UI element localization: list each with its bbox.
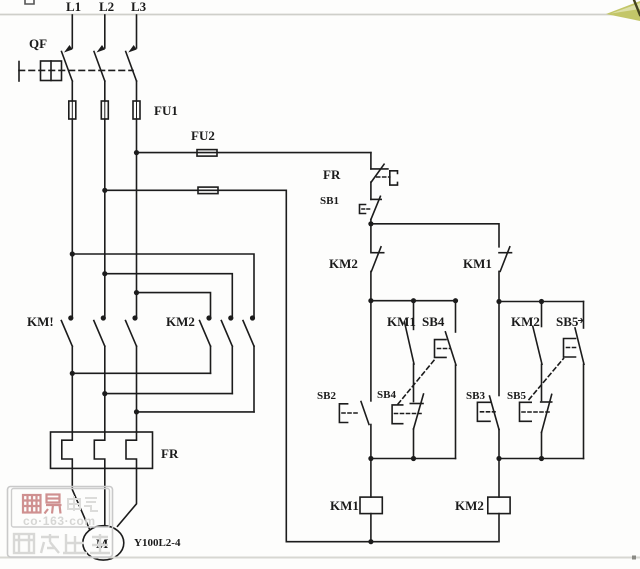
wire branch3 L3 to KM2 left (137, 293, 211, 318)
node junction group2 bottom left (496, 456, 501, 461)
node junction L2 control tap (102, 188, 107, 193)
svg-text:SB4: SB4 (377, 389, 396, 401)
page corner green wedge (606, 1, 640, 21)
svg-text:L3: L3 (131, 0, 147, 14)
relay FR trip element (377, 171, 398, 185)
breaker QF pole 3 (126, 45, 137, 81)
link SB5 dashed (529, 359, 564, 400)
svg-text:SB4: SB4 (422, 314, 445, 329)
thermal relay FR heater 3 (126, 432, 137, 468)
wire control feed upper (137, 152, 371, 154)
motor M letter (96, 536, 108, 551)
node junction branch2 L2 (102, 271, 107, 276)
wire control feed corner down (370, 153, 372, 169)
wire group2 top bar (499, 301, 584, 303)
contactor KM2 main pole 3 (243, 315, 255, 346)
svg-text:co·163·com: co·163·com (23, 514, 96, 528)
wire KM2 output right down (253, 346, 255, 412)
wire L2 fuse to KM1 contact (104, 119, 106, 318)
coil KM2 label (455, 498, 484, 513)
pushbutton SB3 NO contact (490, 302, 500, 459)
pushbutton SB2 label (317, 390, 336, 402)
wire crossover3 (137, 411, 255, 413)
contactor KM2 main label (166, 314, 195, 329)
svg-text:FR: FR (323, 167, 341, 182)
pushbutton SB5 NO operator (564, 339, 579, 358)
svg-text:KM!: KM! (27, 314, 54, 329)
fuse FU1 phase 1 (69, 101, 76, 119)
wire KM1 outputs down (72, 346, 136, 432)
wire FR to SB1 (370, 182, 372, 199)
top page border gray line (0, 14, 640, 16)
motor type label Y100L2-4 (134, 537, 181, 549)
svg-text:L2: L2 (99, 0, 114, 14)
node junction group1 top mid (411, 298, 416, 303)
node junction crossover2 (102, 391, 107, 396)
interlock KM1 NC contact (499, 247, 512, 302)
watermark outer box (8, 487, 113, 558)
wire group1 bottom bar (371, 458, 456, 460)
pushbutton SB4 NO label (422, 314, 445, 329)
fuse FU1 phase 2 (101, 101, 108, 119)
interlock KM2 NC label (329, 256, 358, 271)
contactor KM1 main pole 1 (61, 315, 73, 346)
interlock KM2 NC contact (371, 224, 384, 301)
breaker QF trip dashed line (19, 69, 133, 71)
pushbutton SB1 operator E (360, 205, 372, 214)
pushbutton SB4 NO contact (445, 301, 456, 459)
wire crossover1 (72, 372, 210, 374)
wire motor lead 1 (72, 468, 89, 529)
svg-text:SB5: SB5 (556, 314, 579, 329)
wire motor lead 3 (118, 468, 137, 526)
svg-text:L1: L1 (66, 0, 81, 14)
pushbutton SB1 label (320, 195, 339, 207)
wire L1 QF to fuse (71, 81, 73, 101)
pushbutton SB5 NC label (507, 390, 526, 402)
wire SB1 to right branch (371, 220, 499, 247)
contactor KM1 main pole 3 (126, 315, 138, 346)
watermark panel (8, 487, 113, 558)
fuse FU2 lower (198, 187, 218, 194)
svg-text:KM1: KM1 (330, 498, 359, 513)
wire control feed lower (105, 190, 498, 541)
node junction KM1 coil bottom (368, 539, 373, 544)
node junction SB1 out (368, 221, 373, 226)
wire L2 drop to QF (104, 15, 106, 48)
contact KM2 aux label (511, 314, 540, 329)
node junction group2 bottom mid (539, 456, 544, 461)
page corner wedge shading (611, 3, 640, 14)
pushbutton SB1 NC contact (371, 196, 381, 219)
wire L3 QF to fuse (136, 81, 138, 101)
breaker QF pole 1 (62, 45, 73, 81)
thermal relay FR heater 1 (62, 432, 73, 468)
svg-text:SB5: SB5 (507, 390, 526, 402)
pushbutton SB4 NC contact (410, 394, 423, 459)
node junction L3 control tap (134, 150, 139, 155)
node junction group2 top left (496, 299, 501, 304)
link SB4 dashed (398, 359, 436, 405)
pushbutton SB4 NC operator (392, 405, 421, 424)
breaker QF actuator box (41, 61, 62, 81)
svg-text:SB3: SB3 (466, 390, 485, 402)
svg-text:FU1: FU1 (154, 103, 178, 118)
coil KM2 (488, 459, 510, 542)
wire crossover2 (105, 393, 233, 395)
watermark inner box (12, 489, 110, 528)
contactor KM2 main pole 1 (200, 315, 212, 346)
contact KM2 aux NO (533, 302, 542, 401)
fuse FU2 label (191, 128, 215, 143)
contactor KM1 main label (27, 314, 54, 329)
relay contact FR NC label (323, 167, 341, 182)
wire KM2 output mid down (231, 346, 233, 393)
wire branch1 L1 to KM2 right (72, 254, 254, 318)
node junction group2 top mid (539, 299, 544, 304)
svg-text:SB1: SB1 (320, 195, 339, 207)
svg-text:QF: QF (29, 36, 47, 51)
node junction group1 bottom mid (411, 456, 416, 461)
svg-text:M: M (96, 536, 108, 551)
svg-text:KM2: KM2 (511, 314, 540, 329)
fuse FU1 label (154, 103, 178, 118)
thermal relay FR label (161, 446, 179, 461)
node L2 top (99, 0, 114, 14)
breaker QF left terminal (18, 62, 20, 82)
svg-text:KM1: KM1 (387, 314, 416, 329)
pushbutton SB5 NC contact (541, 394, 552, 458)
fuse FU1 phase 3 (133, 101, 140, 119)
page corner dark fold edge (634, 0, 640, 15)
wire L3 drop to QF (136, 15, 138, 48)
node junction group1 bottom left (368, 456, 373, 461)
pushbutton SB4 NC label (377, 389, 396, 401)
coil KM1 label (330, 498, 359, 513)
pushbutton SB2 NO contact (361, 301, 371, 459)
contactor KM1 main pole 2 (94, 315, 106, 346)
node L3 top (131, 0, 147, 14)
watermark chars wangyou shangchuan gray (14, 534, 110, 553)
svg-text:FR: FR (161, 446, 179, 461)
pushbutton SB5 NO contact (575, 302, 584, 459)
wire branch2 L2 to KM2 mid (105, 274, 233, 318)
node junction crossover1 (70, 371, 75, 376)
node junction branch1 L1 (70, 251, 75, 256)
pushbutton SB5 NO label (556, 314, 583, 329)
wire L2 QF to fuse (104, 81, 106, 101)
wire motor lead 2 (104, 468, 106, 526)
watermark chars dianqi gray (68, 496, 98, 511)
thermal relay FR heater box (51, 432, 153, 468)
wire L1 drop to QF (71, 15, 73, 48)
watermark char wang red (23, 495, 41, 513)
bottom page gray line (0, 557, 640, 559)
svg-text:KM1: KM1 (463, 256, 492, 271)
node junction group1 top left (368, 298, 373, 303)
wire L3 fuse to KM1 contact (136, 119, 138, 318)
contact KM1 aux label (387, 314, 416, 329)
svg-text:KM2: KM2 (329, 256, 358, 271)
wire group1 top bar (371, 300, 456, 302)
wire L1 fuse to KM1 contact (71, 119, 73, 318)
node junction crossover3 (134, 409, 139, 414)
svg-text:KM2: KM2 (455, 498, 484, 513)
contactor KM2 main pole 2 (221, 315, 233, 346)
fuse FU2 upper (197, 150, 217, 157)
node L1 top (66, 0, 81, 14)
pushbutton SB3 operator (477, 402, 495, 421)
breaker QF label (29, 36, 47, 51)
breaker QF pole 2 (94, 45, 105, 81)
svg-text:Y100L2-4: Y100L2-4 (134, 537, 181, 549)
motor M circle (83, 526, 124, 560)
contact KM1 aux NO (405, 301, 415, 402)
node junction group1 top right (453, 298, 458, 303)
node junction branch3 L3 (134, 290, 139, 295)
svg-text:FU2: FU2 (191, 128, 215, 143)
thermal relay FR heater 2 (94, 432, 105, 468)
pushbutton SB3 label (466, 390, 485, 402)
pushbutton SB5 NC operator (520, 402, 550, 421)
top-left partial glyph (25, 0, 34, 4)
svg-text:SB2: SB2 (317, 390, 336, 402)
relay contact FR NC (371, 164, 388, 182)
interlock KM1 NC label (463, 256, 492, 271)
pushbutton SB2 operator (339, 404, 360, 423)
wire KM2 output left down (210, 346, 212, 373)
wire group2 bottom bar (499, 458, 584, 460)
pushbutton SB4 NO operator (435, 340, 451, 358)
coil KM1 (360, 459, 382, 542)
bottom page small mark (632, 556, 636, 560)
svg-text:KM2: KM2 (166, 314, 195, 329)
watermark char yi red (45, 495, 62, 514)
